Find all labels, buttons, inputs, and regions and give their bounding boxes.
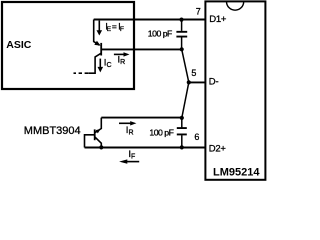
capacitor C2 bottom lead [181,135,183,147]
wire D base collector to pin 6 D2+ [85,147,206,149]
capacitor C2 top lead [181,118,183,128]
svg-text:LM95214: LM95214 [213,166,260,178]
wire A emitter to pin 7 D1+ [94,19,205,21]
capacitor C1 top lead [181,20,183,31]
capacitor C1 plates [176,32,187,37]
diagonal D- node to cap C2 top [182,82,189,118]
transistor Q2 emitter arrowhead [96,129,101,133]
node junction dot collector wire D [99,145,103,149]
svg-text:D-: D- [209,77,219,88]
transistor Q1 collector lead [88,53,101,73]
capacitor C1 bottom lead [181,37,183,49]
wire B base to cap C1 [102,48,182,50]
svg-text:ASIC: ASIC [6,39,32,51]
collector dashed substrate wire [74,72,89,74]
node junction dot wire D cap C2 [180,145,184,149]
current arrow IR inside ASIC [114,53,125,55]
transistor Q1 ASIC PNP emitter lead [94,20,100,46]
transistor Q2 base bar [94,129,96,140]
current arrow IC [99,59,101,68]
current arrow IF [127,161,139,163]
current arrow IE [98,21,100,31]
svg-text:7: 7 [196,6,201,16]
transistor Q2 base loop wire [85,135,95,148]
transistor Q2 MMBT3904 emitter lead [95,118,101,133]
svg-text:6: 6 [194,132,199,142]
node junction dot wire C cap C2 [180,116,184,120]
svg-text:MMBT3904: MMBT3904 [24,125,81,137]
svg-text:IE=IF: IE=IF [105,21,124,33]
transistor Q2 collector lead [95,137,101,147]
svg-text:D2+: D2+ [209,144,227,155]
node D- junction dot [187,80,191,84]
diagonal wire B to D- node [182,49,189,82]
svg-text:100 pF: 100 pF [148,28,172,38]
node junction dot wire A cap C1 [179,18,183,22]
svg-text:5: 5 [191,68,196,78]
current arrow IR wire C [119,122,131,124]
chip notch [227,2,244,11]
svg-text:IF: IF [128,149,135,161]
wire D- to pin 5 [189,81,205,83]
capacitor C2 plates [177,128,187,134]
svg-text:IR: IR [126,125,134,137]
svg-text:D1+: D1+ [209,14,227,25]
transistor Q1 base bar [100,43,102,56]
wire C emitter to cap C2 [101,117,182,119]
ASIC box [2,2,134,89]
chip U1 LM95214 body [205,1,265,179]
svg-text:100 pF: 100 pF [149,127,173,137]
node junction dot wire B cap C1 [180,47,184,51]
svg-text:IC: IC [104,58,112,70]
transistor Q1 emitter arrowhead [94,41,100,46]
